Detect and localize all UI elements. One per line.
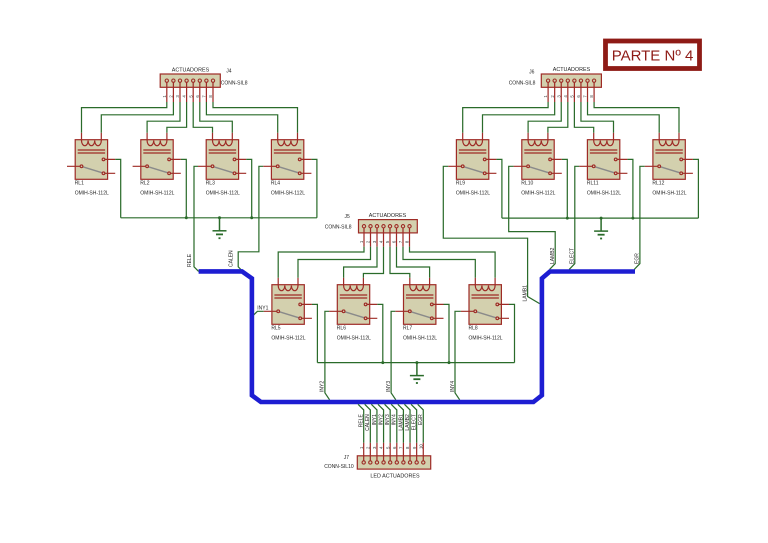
svg-text:INY2: INY2 [320, 381, 326, 392]
net INY1 wire (RL5 common to bus) [253, 311, 264, 315]
wire RL12 NO contact to right group common line [693, 159, 699, 218]
wire RL8 NO contact to middle group common line [509, 304, 515, 362]
net RELE wire (RL3 common to bus) [194, 166, 199, 271]
svg-text:CONN-SIL8: CONN-SIL8 [221, 81, 248, 87]
svg-text:RELE: RELE [187, 253, 193, 267]
wire left group NO common line [121, 217, 317, 219]
svg-text:2: 2 [550, 95, 555, 98]
wire J6 pin 7 to RL12 coil A [588, 102, 660, 133]
junction left group line at RL3 [250, 216, 253, 219]
svg-text:OMIH-SH-112L: OMIH-SH-112L [456, 191, 490, 197]
svg-text:J6: J6 [529, 69, 535, 75]
relay RL5 [264, 278, 312, 325]
svg-text:1: 1 [359, 240, 364, 243]
svg-text:2: 2 [169, 95, 174, 98]
svg-text:8: 8 [589, 95, 594, 98]
svg-text:6: 6 [392, 240, 397, 243]
relay RL3 [198, 133, 246, 180]
svg-text:INY1: INY1 [257, 305, 268, 311]
title box PARTE No 4 [606, 41, 700, 69]
wire J4 pin 2 to RL1 coil B [101, 102, 173, 133]
wire RL10 NO contact to right group common line [562, 159, 568, 218]
junction middle group line at RL7 [448, 361, 451, 364]
svg-text:CONN-SIL8: CONN-SIL8 [509, 80, 536, 86]
svg-text:5: 5 [188, 95, 193, 98]
svg-text:1: 1 [162, 95, 167, 98]
svg-text:8: 8 [208, 95, 213, 98]
svg-text:OMIH-SH-112L: OMIH-SH-112L [403, 336, 437, 342]
svg-text:ELECT: ELECT [570, 248, 576, 264]
svg-text:OMIH-SH-112L: OMIH-SH-112L [521, 191, 555, 197]
svg-text:RL9: RL9 [456, 181, 465, 187]
wire RL5 NO contact to middle group common line [312, 304, 318, 362]
svg-text:RL1: RL1 [75, 181, 84, 187]
svg-text:4: 4 [379, 240, 384, 243]
svg-text:2: 2 [365, 446, 370, 449]
wire middle group NO common line [317, 362, 514, 364]
net LAMB1 wire (RL9 common to bus) [443, 166, 539, 303]
relay RL6 [329, 278, 377, 325]
svg-text:ACTUADORES: ACTUADORES [553, 67, 591, 73]
svg-text:RELE: RELE [359, 414, 365, 428]
svg-text:RL7: RL7 [403, 326, 412, 332]
wire RL6 NO contact to middle group common line [377, 304, 383, 362]
svg-text:OMIH-SH-112L: OMIH-SH-112L [337, 336, 371, 342]
svg-text:5: 5 [569, 95, 574, 98]
svg-text:LAMB2: LAMB2 [405, 414, 411, 431]
relay RL10 [514, 133, 562, 180]
svg-text:7: 7 [398, 240, 403, 243]
relay RL8 [461, 278, 509, 325]
wire J6 pin 1 to RL9 coil A [463, 102, 548, 133]
svg-text:OMIH-SH-112L: OMIH-SH-112L [206, 191, 240, 197]
wire bus to J7 pin 10 (EGR) [418, 404, 424, 442]
svg-text:5: 5 [385, 240, 390, 243]
relay RL12 [645, 133, 693, 180]
wire J4 pin 8 to RL4 coil B [213, 102, 298, 133]
ground right group [594, 217, 608, 239]
junction left group line at RL2 [185, 216, 188, 219]
wire J5 pin 3 to RL6 coil A [344, 247, 377, 278]
svg-text:OMIH-SH-112L: OMIH-SH-112L [140, 191, 174, 197]
J6 pin numbers 1-8 [543, 95, 594, 98]
svg-text:8: 8 [405, 446, 410, 449]
wire J5 pin 6 to RL7 coil B [397, 247, 430, 278]
svg-text:RL2: RL2 [140, 181, 149, 187]
svg-text:CONN-SIL8: CONN-SIL8 [325, 224, 352, 230]
svg-text:7: 7 [202, 95, 207, 98]
wire RL4 NO contact to left group common line [311, 159, 317, 217]
net INY3 wire (RL7 common to bus) [391, 311, 396, 400]
wire bus to J7 pin 7 (LAMB1) [398, 404, 404, 442]
wire J4 pin 7 to RL4 coil A [206, 102, 277, 133]
ground left group [213, 216, 227, 238]
svg-text:LED ACTUADORES: LED ACTUADORES [370, 473, 420, 479]
wire right group NO common line [502, 217, 699, 219]
connector J7 (CONN-SIL10) [357, 443, 430, 469]
wire J4 pin 1 to RL1 coil A [82, 102, 167, 133]
ground middle group [410, 361, 424, 383]
svg-text:8: 8 [405, 240, 410, 243]
svg-text:INY3: INY3 [386, 381, 392, 392]
wire bus to J7 pin 1 (RELE) [358, 404, 364, 442]
svg-text:RL10: RL10 [521, 181, 533, 187]
wire J6 pin 5 to RL11 coil A [574, 102, 593, 133]
svg-text:RL5: RL5 [271, 326, 280, 332]
svg-text:3: 3 [372, 240, 377, 243]
connector J6 (CONN-SIL8) [541, 74, 601, 102]
wire J5 pin 8 to RL8 coil B [410, 247, 496, 278]
wire bus to J7 pin 8 (LAMB2) [404, 404, 410, 442]
svg-text:OMIH-SH-112L: OMIH-SH-112L [587, 191, 621, 197]
bus (thick blue) [199, 271, 635, 402]
wire RL3 NO contact to left group common line [246, 159, 252, 217]
junction right group line at RL11 [631, 217, 634, 220]
wire bus to J7 pin 4 (INY2) [378, 404, 384, 442]
net CALEN wire (RL4 common to bus) [238, 166, 263, 271]
connector J4 (CONN-SIL8) [160, 74, 220, 102]
svg-text:RL4: RL4 [271, 181, 280, 187]
svg-text:LAMB1: LAMB1 [522, 285, 528, 302]
svg-text:4: 4 [379, 446, 384, 449]
wire RL7 NO contact to middle group common line [444, 304, 450, 362]
junction middle group line at RL6 [381, 361, 384, 364]
svg-text:ACTUADORES: ACTUADORES [369, 213, 407, 219]
svg-text:LAMB2: LAMB2 [550, 247, 556, 264]
svg-text:CONN-SIL10: CONN-SIL10 [324, 464, 354, 470]
wire J5 pin 1 to RL5 coil A [278, 247, 364, 278]
relay RL11 [579, 133, 627, 180]
net LAMB2 wire (RL10 common to bus) [509, 166, 556, 269]
wire bus to J7 pin 9 (ELECT) [411, 404, 417, 442]
relay RL9 [448, 133, 496, 180]
svg-text:RL6: RL6 [337, 326, 346, 332]
svg-text:INY4: INY4 [450, 381, 456, 392]
wire RL1 NO contact to left group common line [115, 159, 121, 217]
net EGR wire (RL12 common to bus) [634, 166, 644, 269]
svg-text:RL3: RL3 [206, 181, 215, 187]
svg-text:INY3: INY3 [385, 414, 391, 425]
svg-text:9: 9 [412, 446, 417, 449]
net INY2 wire (RL6 common to bus) [325, 311, 330, 400]
wire J6 pin 2 to RL9 coil B [483, 102, 555, 133]
svg-text:J5: J5 [345, 214, 351, 220]
svg-text:3: 3 [556, 95, 561, 98]
svg-text:10: 10 [418, 444, 423, 449]
svg-text:3: 3 [175, 95, 180, 98]
svg-text:INY1: INY1 [372, 414, 378, 425]
wire J4 pin 5 to RL3 coil A [193, 102, 212, 133]
wire J4 pin 6 to RL3 coil B [200, 102, 233, 133]
wire J4 pin 4 to RL2 coil B [167, 102, 187, 133]
svg-text:4: 4 [563, 95, 568, 98]
svg-text:INY4: INY4 [392, 414, 398, 425]
J4 pin numbers 1-8 [162, 95, 213, 98]
svg-text:LAMB1: LAMB1 [398, 414, 404, 431]
svg-text:3: 3 [372, 446, 377, 449]
svg-text:EGR: EGR [635, 253, 641, 264]
wire bus to J7 pin 5 (INY3) [385, 404, 391, 442]
svg-text:OMIH-SH-112L: OMIH-SH-112L [271, 191, 305, 197]
svg-text:6: 6 [576, 95, 581, 98]
J7 pin numbers 1-10 [359, 444, 424, 449]
wire bus to J7 pin 3 (INY1) [371, 404, 377, 442]
wire J6 pin 8 to RL12 coil B [594, 102, 679, 133]
net INY4 wire (RL8 common to bus) [455, 311, 461, 400]
svg-text:CALEN: CALEN [365, 414, 371, 431]
svg-text:OMIH-SH-112L: OMIH-SH-112L [271, 336, 305, 342]
wire RL11 NO contact to right group common line [627, 159, 633, 218]
wire J4 pin 3 to RL2 coil A [147, 102, 180, 133]
wire J5 pin 5 to RL7 coil A [390, 247, 410, 278]
svg-text:ACTUADORES: ACTUADORES [172, 68, 210, 74]
svg-text:2: 2 [366, 240, 371, 243]
svg-text:CALEN: CALEN [229, 250, 235, 267]
svg-text:RL11: RL11 [587, 181, 599, 187]
wire RL2 NO contact to left group common line [181, 159, 187, 217]
svg-text:6: 6 [392, 446, 397, 449]
wire RL9 NO contact to right group common line [496, 159, 502, 218]
svg-text:OMIH-SH-112L: OMIH-SH-112L [469, 336, 503, 342]
svg-text:INY2: INY2 [378, 414, 384, 425]
svg-text:7: 7 [583, 95, 588, 98]
wire J5 pin 7 to RL8 coil A [403, 247, 475, 278]
J5 pin numbers 1-8 [359, 240, 410, 243]
wire J6 pin 3 to RL10 coil A [528, 102, 561, 133]
svg-text:RL8: RL8 [469, 326, 478, 332]
relay RL1 [67, 133, 115, 180]
svg-text:7: 7 [399, 446, 404, 449]
svg-text:J4: J4 [226, 68, 232, 74]
svg-text:J7: J7 [344, 455, 350, 461]
svg-text:1: 1 [543, 95, 548, 98]
svg-text:1: 1 [359, 446, 364, 449]
svg-text:OMIH-SH-112L: OMIH-SH-112L [652, 191, 686, 197]
wire J5 pin 2 to RL5 coil B [298, 247, 371, 278]
svg-text:6: 6 [195, 95, 200, 98]
svg-text:EGR: EGR [418, 414, 424, 425]
net ELECT wire (RL11 common to bus) [569, 166, 579, 269]
svg-text:PARTE Nº 4: PARTE Nº 4 [612, 47, 694, 64]
wire bus to J7 pin 2 (CALEN) [365, 404, 371, 442]
junction right group line at RL10 [566, 217, 569, 220]
wire J6 pin 6 to RL11 coil B [581, 102, 614, 133]
relay RL2 [133, 133, 181, 180]
wire J6 pin 4 to RL10 coil B [548, 102, 568, 133]
wire J5 pin 4 to RL6 coil B [363, 247, 383, 278]
wire bus to J7 pin 6 (INY4) [391, 404, 397, 442]
connector J5 (CONN-SIL8) [359, 220, 418, 247]
relay RL4 [263, 133, 311, 180]
svg-text:OMIH-SH-112L: OMIH-SH-112L [75, 191, 109, 197]
svg-text:5: 5 [385, 446, 390, 449]
svg-text:RL12: RL12 [652, 181, 664, 187]
svg-text:4: 4 [182, 95, 187, 98]
relay RL7 [395, 278, 443, 325]
svg-text:ELECT: ELECT [412, 414, 418, 430]
